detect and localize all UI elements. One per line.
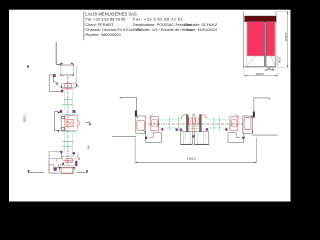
purple dot left glazing xyxy=(161,128,163,130)
left jamb interior trim step xyxy=(146,132,162,143)
purple glazing blocks upper xyxy=(60,110,62,112)
level down-triangle right xyxy=(86,170,88,172)
left jamb profile xyxy=(136,116,146,133)
left wall interior line xyxy=(112,135,136,137)
bottom sash rail profile xyxy=(62,153,78,165)
dimension 2082,5 right vertical xyxy=(276,11,288,67)
sill bracket left xyxy=(49,159,59,173)
left wall cut poche xyxy=(135,111,137,117)
purple bar right of bottom rail xyxy=(75,161,77,166)
horizontal centerline xyxy=(148,123,252,125)
right jamb profile xyxy=(243,116,253,133)
glazing break left pair xyxy=(169,117,171,131)
vertical centerline xyxy=(67,77,69,166)
opening symbol right sash xyxy=(266,22,275,66)
svg-text:96,5: 96,5 xyxy=(277,57,281,63)
sill corner marks xyxy=(59,167,61,169)
center mullion xyxy=(264,22,266,67)
wall bracket left of frame head xyxy=(49,75,61,91)
purple connector bottom left xyxy=(54,168,57,171)
right jamb interior trim step xyxy=(228,132,244,143)
glazing break right pair xyxy=(213,117,215,131)
purple connector top left xyxy=(53,75,55,77)
purple dots lower glazing xyxy=(60,151,62,153)
dimension 1190,5 below elevation xyxy=(244,69,278,77)
right wall cut poche xyxy=(253,112,255,118)
title block left border xyxy=(83,11,85,40)
level down-triangle left xyxy=(28,170,30,172)
elevation sill line xyxy=(243,67,276,69)
glazing lower: panes xyxy=(64,132,72,152)
top sash rail profile xyxy=(61,83,78,89)
sill outer xyxy=(60,167,74,174)
purple dot between blocks xyxy=(193,135,195,137)
svg-text:Repère: 080000003: Repère: 080000003 xyxy=(85,32,121,37)
intermediate rail profile xyxy=(61,114,80,131)
svg-text:Fax: +33 3 62 88 22 61: Fax: +33 3 62 88 22 61 xyxy=(133,16,183,21)
glazing pink xyxy=(247,22,275,56)
purple dot right glazing xyxy=(206,128,208,130)
rail fixing triangles xyxy=(57,111,59,113)
center meeting stiles xyxy=(181,114,207,131)
svg-text:Tél: +33 3 62 88 23 50: Tél: +33 3 62 88 23 50 xyxy=(85,16,126,21)
glazing upper: outer pane xyxy=(64,91,72,110)
wall line above lintel xyxy=(55,42,57,64)
elevation right frame edge xyxy=(275,11,277,67)
glazing upper break lines xyxy=(64,98,73,100)
intermediate rail wall bracket xyxy=(55,112,59,131)
center lower block right xyxy=(195,132,209,145)
glazing run left xyxy=(158,120,181,128)
shutter box band xyxy=(245,16,276,22)
purple dot below top rail xyxy=(61,90,63,92)
outer face line right of box xyxy=(75,66,77,87)
purple dot above finishing box xyxy=(60,151,62,153)
sash area outline xyxy=(247,22,275,66)
fixing symbol xyxy=(55,82,59,86)
left sash profile xyxy=(150,115,159,131)
center lower block left xyxy=(181,132,193,145)
svg-text:1190,5: 1190,5 xyxy=(255,72,264,76)
floor level line xyxy=(28,172,45,174)
head interior dashes xyxy=(52,86,56,88)
frame head step xyxy=(53,77,56,82)
lintel tick xyxy=(56,63,61,65)
glazing lower break lines xyxy=(62,141,74,143)
left wall exterior line xyxy=(120,98,137,116)
width dimension leader left xyxy=(134,138,136,163)
glazing pink bottom edge xyxy=(247,55,275,57)
shutter box section xyxy=(60,63,73,75)
svg-text:166,5: 166,5 xyxy=(266,66,273,70)
frame sill steps xyxy=(57,165,63,168)
svg-text:2082,5: 2082,5 xyxy=(284,32,288,41)
elevation left frame edge xyxy=(242,11,244,67)
dimension 96,5 right of elevation xyxy=(277,56,281,67)
opening symbol left sash xyxy=(247,22,265,66)
svg-text:1163,5: 1163,5 xyxy=(187,156,196,160)
right sash profile xyxy=(230,115,239,131)
level marker up-triangle left xyxy=(27,65,29,67)
wall finishing box left xyxy=(49,152,61,159)
drawing sheet xyxy=(9,10,291,202)
sill red profile xyxy=(61,168,72,173)
width dimension line xyxy=(135,161,257,163)
svg-text:Echelle: 1/3 / Echelle de l'él: Echelle: 1/3 / Echelle de l'éléva xyxy=(137,27,193,32)
width dimension leader right xyxy=(256,138,258,163)
right wall interior line xyxy=(252,134,278,136)
right wall exterior line xyxy=(254,98,270,115)
dimension 166,5 below elevation xyxy=(264,66,274,70)
svg-text:2082,5: 2082,5 xyxy=(23,114,26,122)
svg-text:240: 240 xyxy=(88,145,91,150)
purple connector right jamb xyxy=(243,137,245,139)
svg-text:Date: 16/01/2024: Date: 16/01/2024 xyxy=(187,27,218,32)
glazing run right xyxy=(208,120,230,128)
purple connector left jamb xyxy=(145,137,147,139)
purple dots center cluster xyxy=(180,129,182,131)
elevation bottom frame line xyxy=(243,65,276,67)
level marker mid right xyxy=(86,122,91,124)
